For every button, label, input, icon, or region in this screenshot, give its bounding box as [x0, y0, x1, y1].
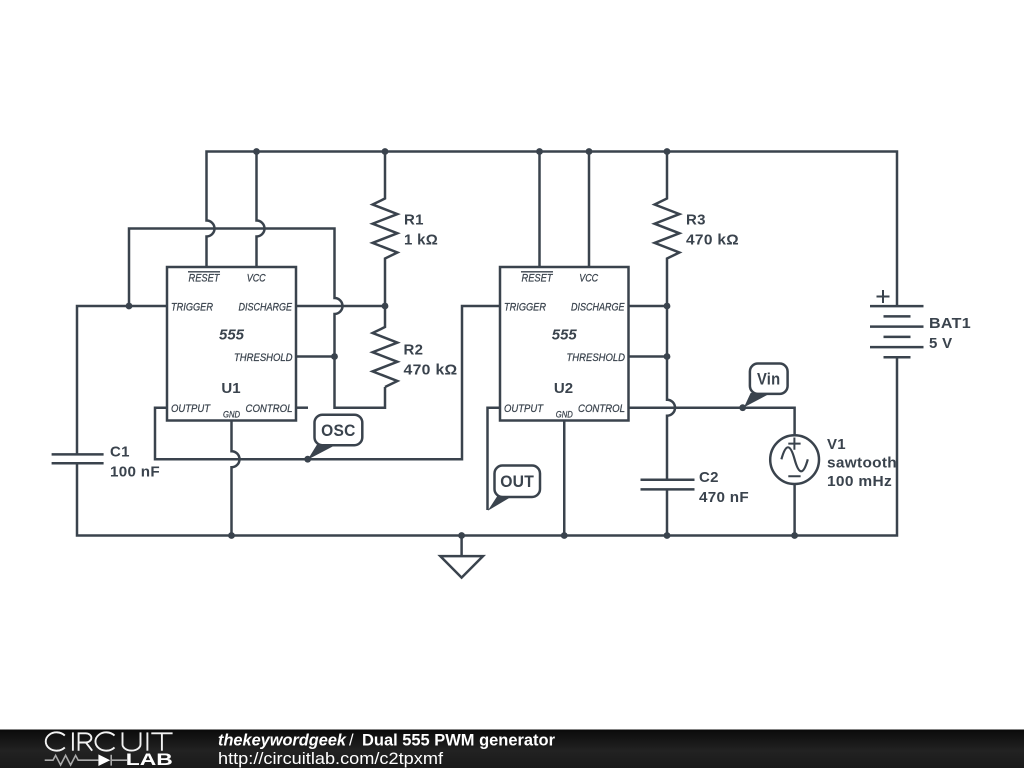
svg-text:http://circuitlab.com/c2tpxmf: http://circuitlab.com/c2tpxmf: [218, 750, 443, 768]
capacitor C2: [641, 480, 695, 490]
resistor R1: [373, 152, 398, 307]
node dot U2 VCC at rail: [586, 148, 593, 155]
wire trigger-threshold link (y=227 net with hop over discharge): [129, 229, 385, 408]
node dot Vin probe: [739, 404, 746, 411]
wire U1 DISCHARGE: [296, 305, 385, 308]
wire U2 RESET vertical: [538, 152, 541, 268]
node dot C2 at bottom rail: [664, 532, 671, 539]
svg-text:/: /: [349, 732, 354, 750]
flag Vin tail: [744, 393, 768, 407]
svg-text:LAB: LAB: [126, 751, 173, 768]
svg-text:C1: C1: [110, 444, 130, 461]
node dot ground at bottom rail: [458, 532, 465, 539]
svg-text:TRIGGER: TRIGGER: [171, 301, 213, 313]
svg-text:R2: R2: [404, 342, 424, 359]
node dot U2 discharge: [664, 303, 671, 310]
U2 pin labels: [504, 273, 625, 420]
svg-text:Dual 555 PWM generator: Dual 555 PWM generator: [362, 732, 556, 750]
flag OUT tail: [488, 496, 512, 511]
svg-text:100 nF: 100 nF: [110, 464, 160, 481]
svg-text:DISCHARGE: DISCHARGE: [239, 301, 293, 313]
flag OUT box: [495, 466, 541, 498]
svg-text:RESET: RESET: [189, 273, 221, 285]
wire U2 GND: [563, 421, 566, 536]
node dot U1 GND at bottom rail: [228, 532, 235, 539]
wire U1 VCC vertical: [257, 152, 265, 268]
wire U2 OUTPUT to OUT flag: [488, 408, 501, 510]
svg-text:470 nF: 470 nF: [699, 489, 749, 506]
svg-text:OUTPUT: OUTPUT: [504, 403, 544, 415]
capacitor C1: [52, 454, 104, 463]
svg-text:RESET: RESET: [522, 273, 554, 285]
svg-text:C2: C2: [699, 469, 719, 486]
svg-text:100 mHz: 100 mHz: [827, 473, 892, 490]
svg-text:OSC: OSC: [321, 422, 356, 440]
svg-text:Vin: Vin: [757, 371, 781, 389]
svg-text:thekeywordgeek: thekeywordgeek: [218, 732, 347, 750]
node dot U1 VCC at rail: [253, 148, 260, 155]
wire U1 OUTPUT to U2 TRIGGER (OSC net): [155, 306, 500, 459]
ground: [440, 536, 483, 578]
svg-text:DISCHARGE: DISCHARGE: [571, 301, 625, 313]
wire bottom rail with C1 bottom lead and battery bottom lead: [77, 357, 897, 535]
svg-text:1 kΩ: 1 kΩ: [404, 232, 438, 249]
svg-text:555: 555: [219, 327, 245, 344]
footer bar: [0, 730, 1024, 768]
wire discharge-threshold-C2 vertical with hop over control: [667, 306, 675, 480]
node dot OSC probe: [304, 456, 311, 463]
component value labels: [110, 212, 971, 507]
node dot U2 RESET at rail: [536, 148, 543, 155]
wire U1 TRIGGER to C1 top: [77, 306, 167, 454]
node dot R1 bottom / U1 discharge: [382, 303, 389, 310]
svg-text:OUTPUT: OUTPUT: [171, 403, 211, 415]
svg-text:470 kΩ: 470 kΩ: [404, 362, 458, 379]
logo CIRCUIT: [46, 732, 173, 750]
U1 RESET overline: [188, 271, 220, 273]
node dot trigger junction: [126, 303, 133, 310]
wire U1 THRESHOLD: [296, 355, 335, 358]
svg-text:U1: U1: [221, 380, 240, 397]
wire U2 THRESHOLD: [629, 355, 668, 358]
wire V1 bottom lead: [793, 484, 796, 536]
voltage source V1: [770, 435, 819, 484]
resistor R2: [373, 306, 398, 387]
wire U2 DISCHARGE: [629, 305, 668, 308]
battery BAT1: [870, 290, 924, 357]
svg-text:sawtooth: sawtooth: [827, 455, 897, 472]
flag OSC tail: [308, 444, 336, 460]
svg-text:U2: U2: [554, 380, 573, 397]
wire U2 CONTROL to V1 top: [629, 408, 795, 436]
node dot R3 top at rail: [664, 148, 671, 155]
svg-text:TRIGGER: TRIGGER: [504, 301, 546, 313]
svg-text:V1: V1: [827, 436, 846, 453]
svg-text:BAT1: BAT1: [929, 315, 971, 332]
wire top rail with U1 RESET vertical and battery top lead: [207, 152, 898, 307]
svg-text:470 kΩ: 470 kΩ: [686, 232, 739, 249]
node dot U2 GND at bottom rail: [561, 532, 568, 539]
node dot R1 top at rail: [382, 148, 389, 155]
svg-text:555: 555: [552, 327, 578, 344]
node dot U1 threshold: [331, 353, 338, 360]
op-amp U2 box: [500, 267, 629, 421]
svg-text:VCC: VCC: [247, 273, 266, 285]
svg-text:5 V: 5 V: [929, 335, 952, 352]
node dot V1 at bottom rail: [791, 532, 798, 539]
svg-text:CONTROL: CONTROL: [246, 403, 293, 415]
svg-text:CONTROL: CONTROL: [578, 403, 625, 415]
svg-text:OUT: OUT: [500, 473, 534, 491]
U2 RESET overline: [521, 271, 553, 273]
node dot U2 threshold: [664, 353, 671, 360]
svg-text:THRESHOLD: THRESHOLD: [567, 352, 626, 364]
svg-text:GND: GND: [556, 409, 573, 419]
resistor R3: [655, 152, 680, 307]
svg-text:VCC: VCC: [579, 273, 598, 285]
U1 pin labels: [171, 273, 293, 420]
svg-text:R1: R1: [404, 212, 424, 229]
wire U1 GND with hop: [232, 421, 240, 536]
svg-text:THRESHOLD: THRESHOLD: [234, 352, 293, 364]
svg-text:R3: R3: [686, 212, 706, 229]
op-amp U1 box: [167, 267, 296, 421]
wire C2 bottom lead: [666, 489, 669, 535]
logo resistor-diode squiggle: [45, 755, 127, 766]
svg-text:GND: GND: [223, 409, 240, 419]
wire U2 VCC vertical: [588, 152, 591, 268]
wire U1 CONTROL stub: [296, 406, 308, 409]
flag Vin box: [750, 364, 788, 394]
flag OSC box: [315, 415, 363, 446]
